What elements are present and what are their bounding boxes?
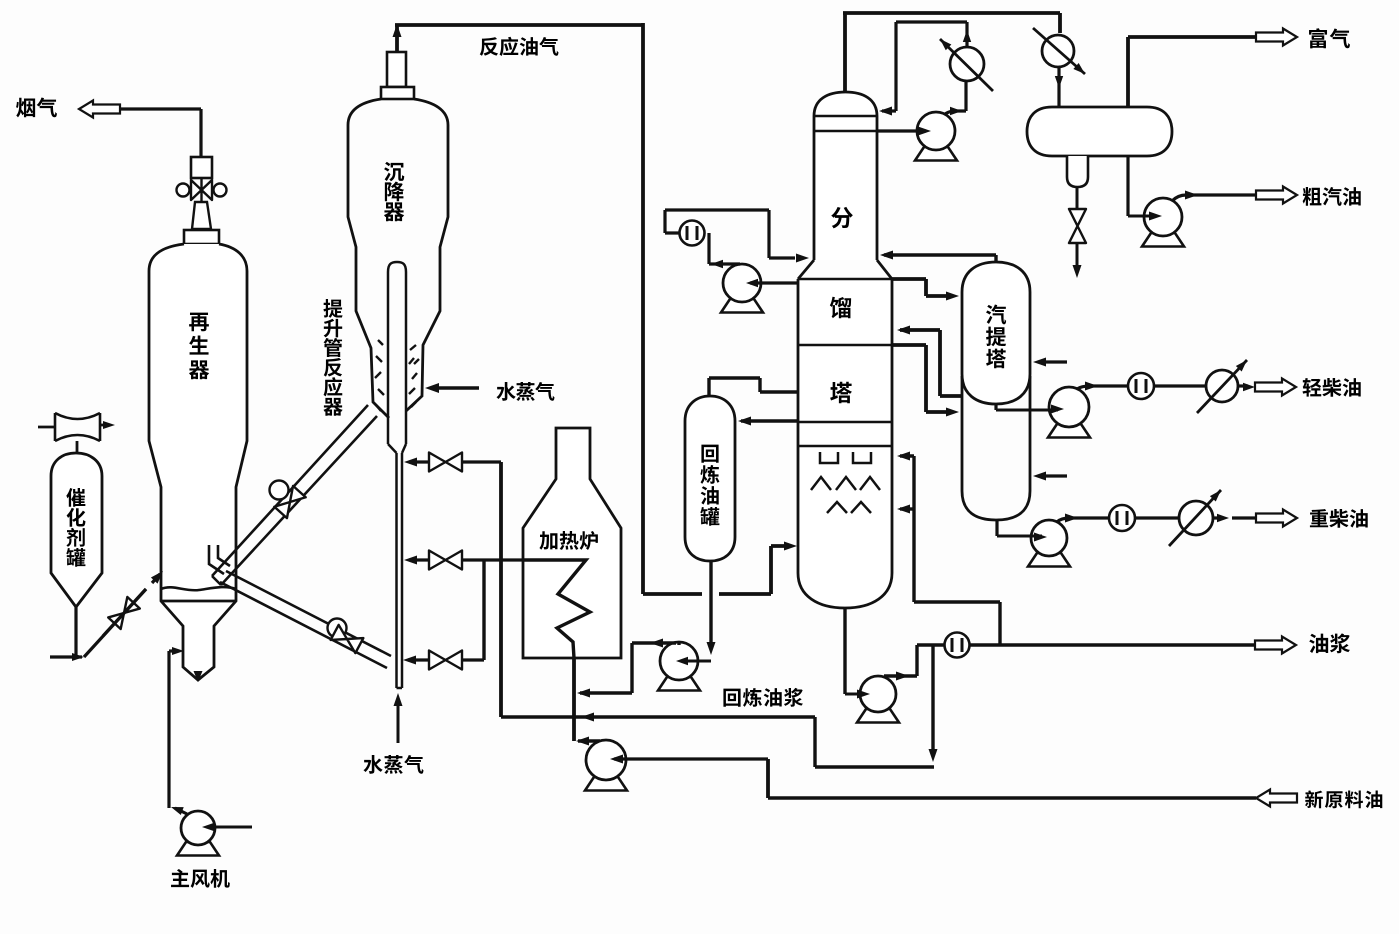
wire tank top to tower [709,378,797,396]
feed pump inlet arrow [614,757,768,760]
regenerator outlet arrow [194,671,203,682]
label tower 塔 [830,382,852,403]
wire horn inlet [38,426,55,429]
wire manifold x484 [482,560,485,660]
settler collar [381,87,414,99]
light diesel pump inlet arrow [996,409,1058,412]
main air blower 主风机 [177,842,219,856]
label main blower 主风机 [171,869,189,887]
pumparound pump [721,299,763,313]
regenerator collar [184,230,219,244]
furnace coil [523,560,590,658]
label rich gas 富气 [1309,28,1327,48]
wire reaction oil gas top run [395,23,643,27]
label settler 沉降器 [384,162,404,181]
label regenerator 再生器 [189,313,209,332]
wire tower bottom outlet [843,608,846,694]
steam arrow riser bottom [397,700,400,743]
pumparound inlet [750,281,798,284]
slurry flow meter [945,633,970,658]
wire horn to tank [76,441,79,453]
regenerated catalyst pipe to riser [220,571,391,668]
wire drain outlet arrow [1076,243,1079,266]
steam arrow stripper lower [1042,474,1067,477]
stripper upper vessel 汽提塔 [962,262,1030,404]
wire pumparound discharge [665,210,795,264]
wire fresh feed riser [766,759,770,798]
wire stripper feed upper [892,279,950,296]
label steam 水蒸气 settler [496,382,515,401]
fractionator tower 分馏塔 [798,92,892,608]
catalyst feed valve [108,597,140,629]
reflux pump inlet [877,129,926,132]
regenerator vessel 再生器 [149,244,247,680]
label riser reactor 提升管反应器 [323,299,342,318]
label fresh feed 新原料油 [1305,790,1323,808]
tower chevron row 1 [811,477,880,490]
riser tube [388,262,406,688]
recycle oil tank 回炼油罐 [685,396,735,561]
wire fresh feed main line [768,796,1256,799]
steam arrow into settler [436,386,479,389]
wire horn outlet arrow [100,424,104,427]
heavy diesel pump inlet arrow [997,535,1042,538]
label stripper 汽提塔 [986,305,1006,325]
wire flue gas line [120,109,201,157]
wire valve V1 branch [409,460,501,463]
wire valve V2 branch [409,558,523,561]
light diesel hollow arrow [1255,379,1296,396]
recycle oil pump [658,677,700,691]
wire stripper vapor return mid [900,330,962,396]
crude gasoline pump [1142,233,1184,247]
label tower 分 [831,207,853,228]
label catalyst tank 催化剂罐 [66,488,85,507]
label furnace 加热炉 [539,531,557,550]
regenerator standpipe hook [209,545,230,574]
wire tank outlet [709,561,712,646]
heating furnace 加热炉 [523,428,621,658]
wire rich gas line [1128,37,1256,107]
fresh feed pump [585,777,627,791]
wire E2 to reflux drum [1057,67,1060,107]
wire stripper top vapor return [884,255,996,262]
heavy diesel flow meter [1109,505,1135,531]
wire slurry pump discharge [884,645,917,676]
reflux condenser E1 [950,47,984,81]
valve V2 [429,551,462,570]
wire reaction oil gas bottom run [643,546,785,594]
crude gasoline hollow arrow [1256,187,1297,204]
tower tray line y446 [798,445,892,448]
heavy diesel cooler [1179,501,1213,535]
rich gas hollow arrow [1256,29,1297,46]
spent catalyst slide valve [270,481,289,500]
catalyst hatching in settler cone [376,356,382,362]
label steam 水蒸气 riser [363,755,382,774]
wire quench stub y509 [900,507,914,510]
label recycle tank 回炼油罐 [701,445,718,463]
heavy diesel pump [1028,553,1070,567]
drum boot [1067,156,1088,187]
feed pump discharge arrow [576,737,589,746]
wire reaction oil-gas riser to top [395,25,399,52]
flue gas slide valve [177,157,227,229]
tower tray line y116 [814,115,877,118]
wire E1 to tower return [882,22,967,111]
wire furnace coil outlet [572,658,576,741]
regenerator catalyst level wavy line [161,587,236,590]
wire reflux pump discharge [945,81,966,114]
wire valve V3 branch [408,658,484,661]
catalyst tank 催化剂罐 [51,453,102,607]
wire tower draw to tank [741,419,797,422]
settler nozzle [387,52,406,87]
settler vessel 沉降器 [348,99,448,418]
wire slurry main line [917,643,1256,646]
valve V1 [429,453,462,472]
tower tray line y422 [798,421,892,424]
wire manifold riser x501 [499,462,503,717]
wire recycle pump discharge [580,643,679,693]
wire reaction oil gas down east side [641,23,645,594]
heavy diesel hollow arrow [1256,510,1297,527]
bottom slurry pump [857,709,899,723]
wire quench branch up [900,456,1000,645]
spent catalyst pipe from settler [212,405,377,585]
wire heavy diesel discharge [1057,518,1179,522]
stripper lower vessel [962,376,1030,520]
label recycle slurry 回炼油浆 [723,689,740,707]
wire recycle slurry right riser [815,717,934,767]
tower tray line y345 [798,344,892,347]
wire light diesel discharge [1077,386,1206,389]
gasoline pump inlet arrow [1128,215,1156,218]
wire stripper lower outlet [995,520,998,536]
drum drain valve [1069,209,1086,243]
wire heavy diesel out [1213,516,1256,519]
regenerated catalyst slide valve [328,619,347,638]
tower chevron row 2 [827,502,871,513]
wire stripper upper outlet [994,404,997,410]
label light diesel 轻柴油 [1303,378,1322,397]
blower inlet arrow [206,826,252,829]
valve V3 [429,651,462,670]
slurry hollow arrow [1255,637,1296,654]
tower tray line y279 [798,278,892,281]
tower trough internals [820,452,871,463]
wire blower discharge [169,651,187,814]
wire slurry branch down [931,645,934,751]
label reaction oil gas 反应油气 [480,37,498,56]
wire catalyst feed diagonal [84,589,146,657]
label flue gas 烟气 [16,98,35,118]
label tower 馏 [830,297,851,319]
wire recycle slurry return y717 [501,715,815,718]
wire tank outlet [50,607,82,657]
reflux drum [1027,107,1172,156]
flue gas outlet hollow arrow [79,101,120,118]
recycle pump inlet arrow [682,660,711,663]
label crude gasoline 粗汽油 [1303,187,1322,206]
wire air to regenerator [169,649,176,652]
wire gasoline discharge [1172,195,1256,201]
light diesel cooler [1206,370,1238,402]
slurry pump inlet arrow [845,693,864,696]
light diesel flow meter [1128,373,1154,399]
wire drum to gasoline pump [1126,156,1129,216]
overhead condenser E2 [1042,35,1074,67]
regenerator bottom line [161,600,236,603]
wire stripper feed lower [892,345,950,412]
pumparound flow meter [680,221,705,246]
fresh feed input hollow arrow [1256,790,1297,807]
wire drum drain [1076,187,1079,209]
label heavy diesel 重柴油 [1310,509,1328,527]
light diesel pump [1048,424,1090,438]
air intake horn [55,413,100,441]
reflux pump [915,147,957,161]
steam arrow stripper upper [1042,360,1067,363]
wire tower overhead vapor [843,13,1060,92]
tower tray line y131 [814,130,877,133]
label slurry 油浆 [1309,634,1328,654]
wire light diesel out [1238,384,1248,387]
